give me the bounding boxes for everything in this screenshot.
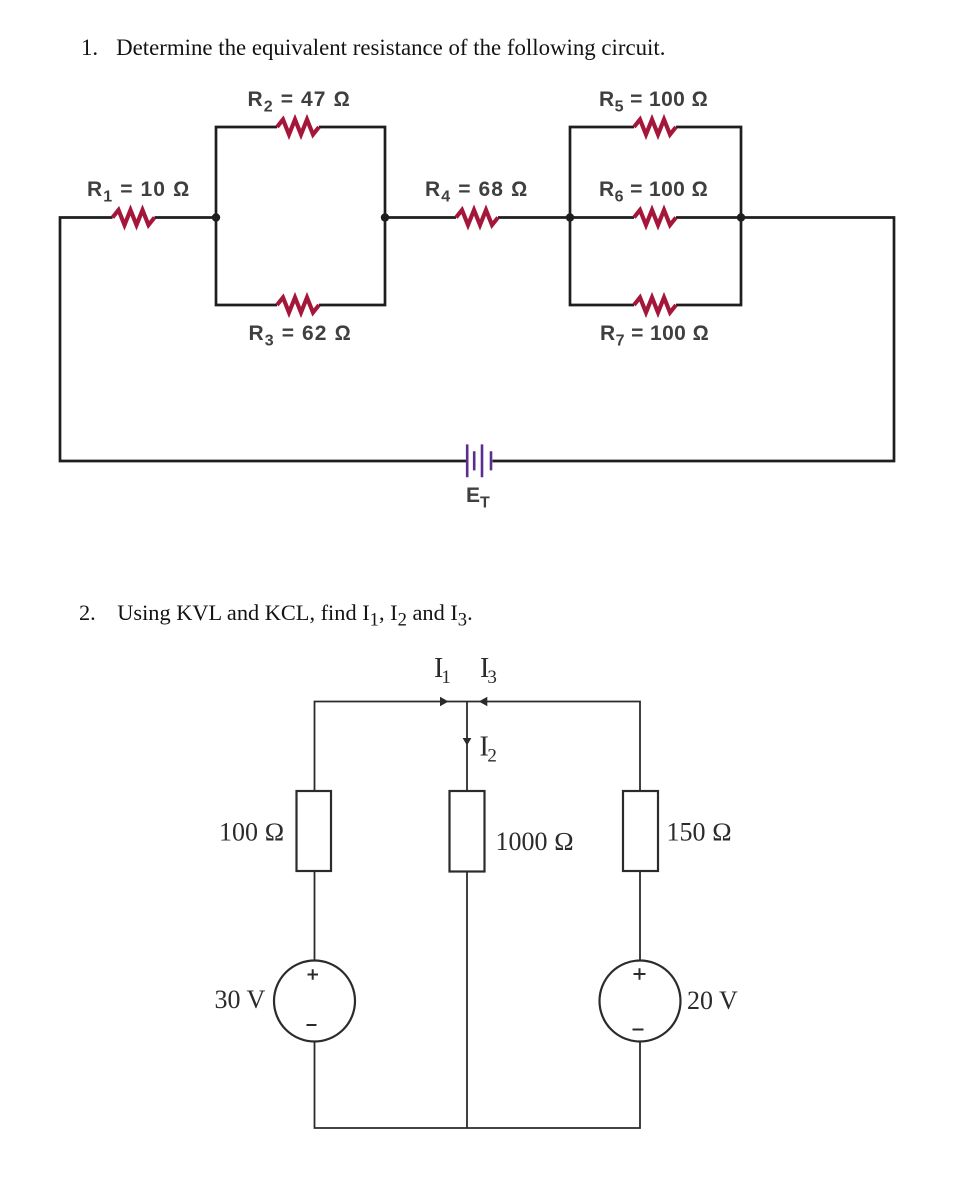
wire: box1 upper-right corner	[319, 127, 385, 219]
svg-text:I1: I1	[434, 653, 451, 688]
wire: box1 upper-left corner	[216, 127, 277, 219]
svg-text:R3 = 62 Ω: R3 = 62 Ω	[249, 322, 352, 350]
problem 2 title	[79, 600, 473, 631]
wire: outer loop right side (battery to rail)	[493, 218, 895, 462]
svg-text:30 V: 30 V	[215, 985, 266, 1014]
wire: R1 to box1 left node	[155, 216, 217, 219]
problem 1 title	[81, 35, 665, 61]
svg-text:ET: ET	[466, 484, 490, 512]
node A junction dot	[212, 213, 220, 221]
svg-text:R1 = 10 Ω: R1 = 10 Ω	[87, 178, 190, 206]
wire: box2 lower-right corner	[676, 217, 741, 306]
wire: box1 right node to R4	[385, 216, 456, 219]
svg-text:R4 = 68 Ω: R4 = 68 Ω	[425, 178, 528, 206]
resistor R1	[113, 210, 155, 225]
svg-text:R6 = 100 Ω: R6 = 100 Ω	[599, 178, 708, 206]
svg-text:I3: I3	[480, 653, 497, 688]
wire: box1 lower-right corner	[319, 217, 385, 306]
resistor 150 ohm box	[623, 791, 658, 871]
wire: right branch middle	[639, 871, 641, 961]
wire: box1 lower-left corner	[216, 217, 277, 306]
svg-text:100 Ω: 100 Ω	[219, 818, 284, 847]
wire: outer loop left side (rail to battery)	[60, 218, 466, 462]
resistor 100 ohm box	[297, 791, 332, 871]
wire: R4 to box2 left node	[498, 216, 570, 219]
resistor R3	[277, 298, 319, 313]
resistor R5	[634, 120, 676, 135]
wire: box2 upper-left corner	[570, 127, 634, 219]
wire: box2 middle left segment	[570, 216, 634, 219]
battery ET	[467, 444, 491, 477]
wire: circuit2 top rail with left/right branch tops	[315, 702, 641, 792]
plus sign 30V	[308, 969, 319, 980]
svg-text:1000 Ω: 1000 Ω	[496, 827, 574, 856]
node D junction dot	[737, 213, 745, 221]
wire: middle branch bottom	[466, 872, 468, 1129]
voltage source 30V circle	[274, 961, 355, 1042]
svg-text:R7 = 100 Ω: R7 = 100 Ω	[600, 322, 709, 350]
wire: middle branch top	[466, 702, 468, 792]
wire: box2 middle right segment	[676, 216, 741, 219]
resistor 1000 ohm box	[450, 791, 485, 872]
svg-text:I2: I2	[480, 732, 497, 767]
svg-text:R2 = 47 Ω: R2 = 47 Ω	[248, 88, 351, 116]
svg-text:150 Ω: 150 Ω	[667, 818, 732, 847]
minus sign 30V	[307, 1024, 317, 1026]
node C junction dot	[566, 213, 574, 221]
arrow I2 (down)	[463, 738, 472, 746]
resistor R7	[634, 298, 676, 313]
node B junction dot	[381, 213, 389, 221]
svg-text:20 V: 20 V	[687, 986, 738, 1015]
wire: left branch middle	[314, 871, 316, 961]
plus sign 20V	[634, 968, 646, 980]
arrow I3 (left)	[479, 697, 488, 706]
wire: box2 upper-right corner	[676, 127, 741, 219]
resistor R6	[634, 210, 676, 225]
wire: box2 lower-left corner	[570, 217, 634, 306]
minus sign 20V	[633, 1029, 644, 1031]
wire: circuit2 bottom rail with left/right branch bottoms	[315, 1042, 641, 1128]
resistor R2	[277, 120, 319, 135]
resistor R4	[456, 210, 498, 225]
arrow I1 (right)	[440, 697, 449, 706]
voltage source 20V circle	[600, 961, 681, 1042]
svg-text:R5 = 100 Ω: R5 = 100 Ω	[599, 88, 708, 116]
